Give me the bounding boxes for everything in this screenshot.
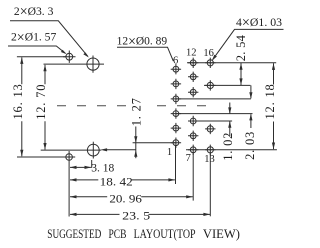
svg-text:4×Ø1. 03: 4×Ø1. 03 bbox=[236, 15, 282, 31]
row line pin A4 bbox=[176, 113, 253, 115]
extension line bottom small hole bbox=[17, 156, 66, 158]
dimension 2.54 bbox=[234, 34, 248, 85]
mounting hole small top bbox=[63, 51, 75, 63]
svg-text:1. 27: 1. 27 bbox=[129, 97, 143, 126]
extension line bottom big hole bbox=[41, 149, 102, 151]
svg-text:18. 42: 18. 42 bbox=[100, 174, 133, 188]
extension line top big hole bbox=[44, 63, 105, 65]
row line pin15 bbox=[204, 84, 250, 86]
extension drop from pin A1 bbox=[175, 146, 177, 184]
dimension 1.27 bbox=[129, 97, 143, 158]
label 2xD1.57 bbox=[8, 30, 67, 55]
svg-text:2×Ø3. 3: 2×Ø3. 3 bbox=[14, 4, 54, 20]
row line pin7 pin13 bbox=[186, 149, 277, 151]
label 12xD0.89 bbox=[117, 34, 174, 62]
pin column A holes (pins 1-6) bbox=[171, 64, 181, 148]
svg-text:SUGGESTEDPCBLAYOUT(TOPVIEW): SUGGESTEDPCBLAYOUT(TOPVIEW) bbox=[47, 227, 240, 241]
svg-text:1: 1 bbox=[167, 147, 172, 158]
svg-text:7: 7 bbox=[186, 153, 191, 164]
row line pin B4 bbox=[193, 120, 232, 122]
row line pin16 bbox=[187, 62, 276, 64]
svg-text:12. 18: 12. 18 bbox=[263, 83, 277, 119]
dimension 1.02 bbox=[221, 103, 235, 161]
mounting hole big top bbox=[87, 56, 99, 73]
pin column C holes (pins 13-16) bbox=[205, 58, 215, 155]
dimension 23.5 bbox=[70, 209, 210, 223]
svg-text:2. 03: 2. 03 bbox=[243, 131, 257, 160]
mounting hole big bottom bbox=[87, 142, 99, 159]
svg-text:20. 96: 20. 96 bbox=[109, 191, 141, 205]
extension drop from pin B7 bbox=[192, 153, 194, 201]
svg-text:3. 18: 3. 18 bbox=[91, 161, 114, 175]
dimension 20.96 bbox=[70, 191, 193, 205]
svg-text:2×Ø1. 57: 2×Ø1. 57 bbox=[11, 30, 56, 46]
dimension 12.70 bbox=[34, 65, 48, 150]
svg-text:1. 02: 1. 02 bbox=[221, 132, 235, 161]
dimension 3.18 bbox=[70, 160, 115, 175]
svg-text:12: 12 bbox=[186, 48, 197, 59]
dimension 12.18 bbox=[263, 63, 277, 149]
mounting hole small bottom bbox=[63, 151, 75, 160]
extension drop from small bottom hole bbox=[68, 160, 70, 216]
svg-text:6: 6 bbox=[173, 55, 178, 66]
svg-text:12. 70: 12. 70 bbox=[34, 84, 48, 120]
dimension 18.42 bbox=[70, 174, 175, 188]
row line at 149.8 left segment with arrow bbox=[100, 148, 135, 151]
svg-text:13: 13 bbox=[204, 154, 215, 165]
dimension 2.03 bbox=[243, 85, 257, 159]
row line pin A1 bbox=[133, 142, 176, 144]
svg-text:23. 5: 23. 5 bbox=[122, 209, 150, 223]
pin column B holes (pins 7-12) bbox=[188, 58, 198, 155]
svg-text:16. 13: 16. 13 bbox=[11, 83, 25, 119]
svg-text:2. 54: 2. 54 bbox=[234, 34, 248, 61]
dimension 16.13 bbox=[11, 57, 25, 156]
label 2xD3.3 bbox=[10, 4, 89, 58]
centerline dashed bbox=[57, 105, 206, 107]
row line pin A3 bbox=[176, 98, 251, 100]
label 4xD1.03 bbox=[212, 15, 284, 61]
extension line top small hole bbox=[17, 56, 66, 58]
svg-text:16: 16 bbox=[203, 48, 214, 59]
extension drop from pin C13 bbox=[209, 153, 211, 217]
